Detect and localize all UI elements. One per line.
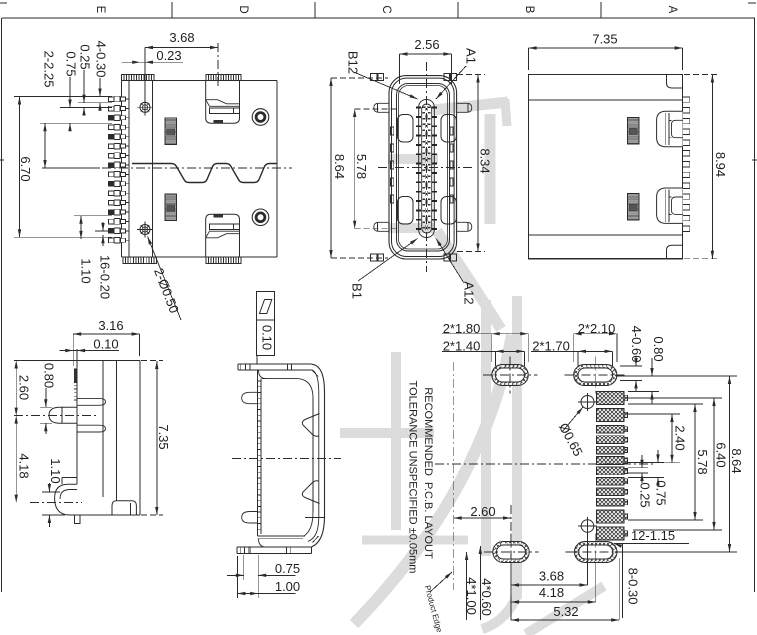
svg-text:12-1.15: 12-1.15 [631, 528, 675, 543]
svg-text:E: E [94, 6, 106, 14]
pcb hole lower [578, 517, 597, 535]
svg-text:A: A [666, 6, 678, 14]
pcb pad upper-right [565, 357, 626, 394]
watermark stroke: top char vertical [485, 114, 496, 224]
dim 8-0.30 [622, 544, 640, 619]
dim 6.40 pcb [628, 398, 729, 530]
view2 tongue [419, 100, 435, 238]
svg-text:0.75: 0.75 [275, 561, 300, 576]
frame zone ticks [0, 2, 757, 160]
svg-text:2.60: 2.60 [470, 504, 495, 519]
pcb pad upper-left [483, 357, 538, 394]
dim 1.10 view4 [42, 458, 65, 527]
dim 5.32 pcb [511, 533, 619, 622]
frame right border [754, 18, 756, 592]
svg-text:2.60: 2.60 [17, 375, 32, 400]
pcb top ext line [617, 375, 737, 377]
view2 shell wall bumps [391, 127, 454, 203]
svg-text:0.23: 0.23 [156, 48, 181, 63]
svg-text:8.34: 8.34 [478, 148, 493, 173]
dim 0.75 view5 [227, 555, 300, 598]
view5 hooks [302, 414, 319, 504]
svg-text:7.35: 7.35 [592, 31, 617, 46]
dim 2*2.10 [574, 321, 617, 362]
dim 7.35 [529, 31, 683, 70]
svg-text:TOLERANCE UNSPECIFIED ±0.05mm: TOLERANCE UNSPECIFIED ±0.05mm [407, 381, 419, 574]
svg-text:0.10: 0.10 [259, 325, 274, 350]
frame left border [1, 18, 3, 592]
svg-text:8.94: 8.94 [713, 152, 728, 177]
svg-text:2-2.25: 2-2.25 [42, 51, 57, 88]
svg-text:5.32: 5.32 [553, 604, 578, 619]
view2 cavity [397, 84, 450, 252]
dim 12-1.15 [614, 528, 689, 548]
dim 4-0.60 [620, 326, 644, 392]
svg-text:5.78: 5.78 [354, 154, 369, 179]
watermark stroke: bottom diagonal [526, 586, 604, 634]
view1 screw symbol bottom [137, 222, 153, 238]
svg-text:8.64: 8.64 [332, 154, 347, 179]
view1 ring circles [252, 109, 269, 126]
view2 side pegs [374, 103, 472, 231]
view1 screw symbol top [137, 99, 153, 115]
note recommended pcb layout [422, 387, 434, 559]
svg-text:0.10: 0.10 [93, 336, 118, 351]
svg-text:B: B [523, 6, 535, 14]
view4 peg [49, 407, 77, 423]
svg-text:1.10: 1.10 [48, 458, 63, 483]
dim 8.34 [457, 75, 493, 252]
dim 2*1.40 [442, 338, 525, 366]
dim 3.16 [73, 318, 139, 356]
dim 7.35 view4 [141, 361, 171, 516]
view2 latch windows [398, 115, 457, 225]
svg-text:0.80: 0.80 [42, 363, 57, 388]
svg-text:0.75: 0.75 [654, 480, 669, 505]
view2 side tabs top [371, 74, 457, 81]
svg-text:2.56: 2.56 [414, 37, 439, 52]
view4 peg slots [77, 398, 105, 432]
view1 center seam wave [132, 164, 277, 183]
svg-text:4-0.30: 4-0.30 [94, 41, 109, 78]
view3 body [529, 75, 683, 259]
label A12 [436, 239, 477, 305]
dim 1.00 view5 [237, 556, 300, 598]
dim 6.70 [14, 97, 112, 238]
watermark stroke: bottom bar [362, 536, 468, 545]
dim 3.68 pcb [511, 568, 588, 586]
dim 0.10 view4 [60, 336, 119, 352]
svg-text:0.75: 0.75 [64, 51, 79, 76]
dim 8.94 [684, 75, 728, 259]
view4 centerline lower [30, 502, 82, 504]
view4 bottom pin [74, 515, 80, 524]
dim 0.25 [78, 44, 93, 115]
svg-text:B1: B1 [350, 283, 365, 299]
svg-text:D: D [237, 5, 249, 13]
label B12 [346, 51, 418, 99]
watermark stroke: top char horizontal bar [433, 99, 508, 126]
view5 bottom flange [237, 547, 312, 553]
watermark stroke: bottom char big sweep [354, 335, 512, 624]
svg-text:4.18: 4.18 [539, 585, 564, 600]
svg-text:2.40: 2.40 [673, 425, 688, 450]
dim 2.56 [400, 37, 452, 84]
view4 foot [55, 478, 140, 516]
view3 corner notches [667, 75, 683, 259]
svg-text:B12: B12 [346, 51, 361, 74]
svg-text:4-0.60: 4-0.60 [629, 326, 644, 363]
svg-text:A12: A12 [462, 281, 477, 304]
dim 2*1.70 [531, 338, 613, 366]
view1 pin row (16 contacts) [108, 96, 129, 243]
dim diam0.65 leader [556, 407, 586, 459]
dim 4-0.30 [44, 41, 112, 111]
dim 5.78 pcb [628, 404, 710, 520]
svg-text:3.16: 3.16 [98, 318, 123, 333]
pcb pad column [597, 392, 628, 540]
svg-text:1.10: 1.10 [79, 258, 94, 283]
view1 bottom serration bands [123, 257, 241, 264]
view2 centerlines [378, 62, 474, 272]
svg-text:8.64: 8.64 [729, 448, 744, 473]
svg-text:6.70: 6.70 [18, 156, 33, 181]
dim 0.75 [60, 51, 112, 131]
label A1 [436, 48, 479, 99]
view1 bottom-right latch tab [206, 214, 240, 257]
frame top border [2, 17, 755, 19]
view3 right pins [683, 97, 690, 232]
dim 0.80 view4 [40, 363, 57, 434]
view2 tongue contacts [416, 107, 437, 229]
dim 4*1.00 [464, 552, 479, 620]
svg-text:0.25: 0.25 [78, 44, 93, 69]
dim 2.60 [15, 361, 32, 416]
view1 hatch windows [165, 118, 176, 221]
view5 serration ticks [257, 381, 261, 529]
dim 16-0.20 [95, 222, 113, 299]
view4 body [14, 349, 140, 515]
view4 pin edge ticks [74, 369, 77, 400]
svg-text:3.68: 3.68 [169, 30, 194, 45]
view4 right foot [112, 501, 136, 515]
svg-text:4.18: 4.18 [17, 453, 32, 478]
dim 0.75 pcb [628, 450, 669, 506]
view3 latch springs [657, 111, 683, 146]
dim 0.23 [122, 48, 183, 64]
view2 outer shell [389, 76, 457, 259]
dim 4*0.60 [479, 546, 494, 620]
view1 top serration bands [122, 75, 241, 81]
pcb pad lower-left [484, 534, 539, 571]
dim 1.10 view1 [74, 216, 112, 284]
view4 centerline upper [14, 415, 98, 417]
dim 2*1.80 [442, 321, 528, 362]
dim 8.64 pcb [620, 376, 744, 552]
dim 4.18 [15, 416, 32, 503]
watermark stroke: bottom char left vertical [391, 352, 401, 530]
pcb centerline horizontal [435, 463, 655, 465]
dim 5.78 view2 [353, 109, 396, 229]
pcb pad lower-right [565, 534, 626, 571]
dim 0.80 pcb [628, 336, 666, 404]
frame zone letters [94, 5, 678, 13]
view1 centerline [102, 167, 292, 169]
dim 0.25 pcb [628, 455, 653, 508]
view5 top flange [238, 364, 312, 370]
dim 8.64 view2 [329, 78, 388, 258]
view5 outer shell [308, 364, 325, 553]
watermark stroke: top char left bars [388, 159, 438, 228]
svg-text:16-0.20: 16-0.20 [98, 255, 113, 299]
dim 2-2.25 [40, 51, 100, 168]
svg-text:0.25: 0.25 [638, 482, 653, 507]
dim 2.40 pcb [628, 414, 688, 463]
svg-text:4*0.60: 4*0.60 [479, 578, 494, 616]
svg-text:6.40: 6.40 [714, 442, 729, 467]
svg-text:A1: A1 [464, 48, 479, 64]
dim 4.18 pcb [511, 585, 596, 604]
watermark stroke: bottom char cross bar [340, 428, 434, 438]
flatness callout [257, 292, 275, 364]
watermark stroke: top char sweep [437, 231, 501, 329]
view5 pegs [242, 392, 258, 523]
svg-text:8-0.30: 8-0.30 [626, 568, 641, 605]
watermark stroke: bottom char right bars [482, 296, 517, 629]
svg-text:7.35: 7.35 [156, 424, 171, 449]
svg-text:C: C [380, 5, 392, 13]
svg-text:0.80: 0.80 [651, 336, 666, 361]
note product edge [423, 572, 452, 634]
dim 2-diam0.50 leader [148, 237, 182, 321]
dim 3.68 top [145, 30, 218, 102]
svg-text:3.68: 3.68 [539, 568, 564, 583]
view1 body outline [122, 81, 277, 258]
svg-text:5.78: 5.78 [695, 449, 710, 474]
view3 hatch windows [628, 118, 639, 220]
view5 body [257, 370, 324, 547]
svg-text:RECOMMENDED P.C.B. LAYOUT: RECOMMENDED P.C.B. LAYOUT [422, 387, 434, 559]
svg-text:1.00: 1.00 [275, 579, 300, 594]
view5 centerline [232, 458, 341, 460]
label B1 [350, 239, 418, 299]
pcb product edge line [453, 362, 455, 590]
view2 side tabs bottom [371, 254, 457, 261]
dim 2.60 pcb [454, 504, 511, 545]
view5 corner hatch ticks [312, 370, 319, 543]
note tolerance [407, 381, 419, 574]
view1 top-right latch tab [206, 81, 240, 124]
pcb hole upper [578, 393, 597, 411]
